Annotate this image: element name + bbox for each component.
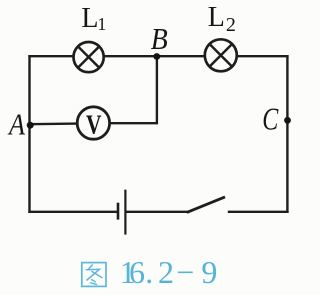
svg-text:V: V <box>86 109 102 139</box>
wire: battery to switch segment <box>126 211 187 213</box>
svg-text:L: L <box>208 2 225 33</box>
svg-text:2: 2 <box>226 14 236 36</box>
wire: bottom left segment to battery <box>28 211 117 213</box>
node A junction dot <box>27 122 34 129</box>
svg-text:1: 1 <box>97 14 106 34</box>
lamp L2 <box>205 39 237 71</box>
battery cell <box>118 190 125 235</box>
wire: vertical from corner up to node B <box>156 56 158 124</box>
switch S <box>187 197 225 213</box>
svg-text:C: C <box>262 100 278 136</box>
wire: top wire from left corner to right corner <box>28 55 288 57</box>
node C junction dot <box>284 117 291 124</box>
caption: character 图 drawn as strokes <box>82 263 106 287</box>
wire: switch to bottom right corner <box>228 211 289 213</box>
wire: left rail <box>28 55 30 213</box>
node B junction dot <box>153 53 160 60</box>
wire: right rail <box>286 55 288 213</box>
svg-text:16.2−9: 16.2−9 <box>120 254 218 290</box>
wire: voltmeter to corner <box>109 122 157 124</box>
svg-text:B: B <box>151 22 168 56</box>
voltmeter V <box>77 107 109 140</box>
lamp L1 <box>74 42 104 72</box>
svg-text:A: A <box>7 107 25 141</box>
wire: middle branch A to voltmeter <box>30 122 79 125</box>
svg-text:L: L <box>81 3 98 34</box>
